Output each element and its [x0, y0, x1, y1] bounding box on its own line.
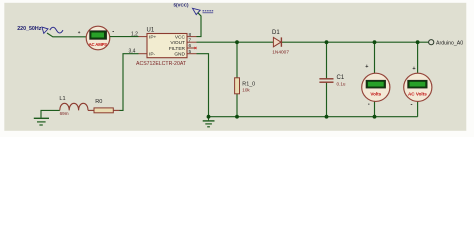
wire source to ammeter: [47, 33, 86, 37]
svg-text:R0: R0: [95, 99, 102, 105]
inductor L1: [59, 96, 88, 116]
power terminal arrow: [193, 8, 201, 14]
junction rail/voltmeter1: [373, 115, 377, 119]
pin stub VCC 8: [187, 36, 197, 38]
voltmeter AC Volts: [404, 73, 432, 101]
ammeter AC AMPS: [86, 26, 110, 50]
svg-text:C1: C1: [337, 75, 345, 81]
ground (left): [34, 110, 60, 125]
svg-text:7: 7: [189, 37, 192, 43]
bottom ground rail: [209, 116, 418, 118]
wire R1_0 branch: [236, 42, 238, 117]
svg-text:-: -: [112, 30, 114, 36]
svg-text:+: +: [78, 30, 81, 35]
svg-text:ACS712ELCTR-20AT: ACS712ELCTR-20AT: [136, 61, 187, 67]
wire GND pin down to rail: [197, 54, 209, 117]
svg-text:1,2: 1,2: [131, 31, 138, 37]
svg-text:5: 5: [189, 49, 192, 55]
wire VIOUT to Arduino_A0: [197, 41, 429, 43]
svg-text:3,4: 3,4: [129, 48, 136, 54]
svg-text:8: 8: [189, 32, 192, 38]
svg-text:Arduino_A0: Arduino_A0: [436, 41, 463, 47]
svg-text:1N4007: 1N4007: [272, 49, 289, 55]
voltmeter Volts: [362, 73, 390, 101]
junction rail/C1: [325, 115, 329, 119]
svg-text:VCC: VCC: [175, 35, 186, 41]
junction rail/ground: [207, 115, 211, 119]
junction VIOUT/R1_0: [235, 40, 239, 44]
svg-text:D1: D1: [272, 30, 280, 36]
junction VIOUT/voltmeter2: [416, 40, 420, 44]
wire voltmeter 1 branch: [374, 42, 376, 73]
svg-text:6: 6: [189, 43, 192, 49]
page background: [0, 0, 474, 137]
svg-text:Volts: Volts: [370, 91, 381, 96]
svg-text:FILTER: FILTER: [169, 46, 186, 52]
svg-text:69m: 69m: [60, 111, 69, 116]
AC generator terminal arrow: [42, 27, 48, 33]
terminal Arduino_A0: [429, 40, 464, 47]
wire voltmeter 2 branch: [417, 42, 419, 73]
svg-text:GND: GND: [174, 52, 185, 58]
svg-text:+: +: [365, 64, 368, 70]
resistor R1_0: [235, 78, 256, 94]
svg-text:VIOUT: VIOUT: [170, 40, 185, 46]
unconnected pin marker: [194, 47, 196, 49]
power net label dashes: [203, 11, 214, 13]
pin stub IP-: [139, 53, 148, 55]
svg-text:10k: 10k: [242, 87, 250, 92]
pin stub IP+: [139, 36, 148, 38]
wire ammeter to IP+: [110, 36, 139, 38]
svg-text:-: -: [411, 103, 413, 109]
svg-text:-: -: [368, 102, 370, 108]
resistor R0: [88, 99, 120, 113]
svg-text:IP+: IP+: [149, 35, 157, 41]
svg-text:5(VCC): 5(VCC): [174, 3, 190, 8]
op U1 ACS712 chip: [136, 28, 197, 67]
svg-text:IP-: IP-: [149, 52, 156, 58]
wire R0 up to IP-: [120, 54, 139, 111]
svg-text:AC Volts: AC Volts: [408, 91, 427, 96]
svg-text:220_50Hz: 220_50Hz: [17, 26, 42, 32]
schematic sheet: [4, 3, 466, 131]
diode D1: [272, 30, 289, 55]
sine wave symbol: [50, 27, 63, 33]
svg-text:0.1u: 0.1u: [337, 82, 346, 87]
junction VIOUT/voltmeter1: [373, 40, 377, 44]
capacitor C1: [319, 75, 345, 86]
svg-text:L1: L1: [59, 96, 65, 102]
pin stub VIOUT 7: [187, 41, 197, 43]
wire C1 branch: [326, 42, 328, 78]
svg-text:AC AMPS: AC AMPS: [89, 42, 108, 47]
ground (center): [203, 117, 215, 127]
junction rail/R1_0: [235, 115, 239, 119]
pin stub FILTER 6: [187, 47, 195, 49]
junction VIOUT/C1: [325, 40, 329, 44]
svg-text:+: +: [412, 66, 415, 72]
svg-text:U1: U1: [147, 28, 155, 34]
wire VCC pin to power terminal: [197, 13, 202, 37]
pin stub GND 5: [187, 53, 197, 55]
